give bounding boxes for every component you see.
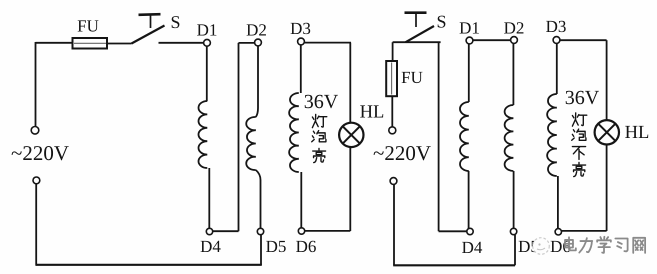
wire: fuse to switch pivot: [107, 43, 132, 45]
label S (right): [438, 16, 446, 28]
wire: D3 down to winding W3 (right): [556, 43, 558, 94]
winding W2 (left, D2-D5): [246, 117, 256, 170]
terminal D5 (left): [257, 228, 263, 234]
wire: switch to terminal D1 (left): [159, 42, 204, 44]
terminal D2 (left): [255, 39, 262, 46]
label ~220V (right): [374, 146, 431, 160]
winding W1 (right, D1-D4): [460, 102, 469, 171]
wire: right source down to bottom return: [393, 184, 395, 265]
wire: lamp loop top rail (left): [304, 43, 351, 123]
label FU (left): [78, 20, 99, 31]
label D1 (left): [197, 24, 216, 35]
switch S (right): fixed contact T-bar: [405, 13, 427, 27]
terminal D4 (left): [206, 228, 212, 234]
winding W1 (left, D1-D4): [198, 101, 207, 168]
terminal D3 (left): [298, 38, 305, 45]
fuse FU (left): [73, 38, 108, 49]
wire: W3 down to D6 (right): [557, 176, 559, 229]
winding W2 (right, D2-D5): [505, 105, 514, 171]
terminal D6 (right): [555, 229, 561, 235]
watermark logo circle: [533, 238, 550, 255]
wire: D4 up to winding W1 (right): [468, 171, 470, 228]
lamp HL (right): [595, 120, 619, 144]
wire: D2 down to winding W2: [256, 46, 258, 117]
AC source terminals (left): [31, 127, 40, 184]
wire: D3 down to winding W3: [300, 45, 302, 93]
label D6 (right): [551, 241, 571, 252]
switch S (left): blade: [132, 26, 165, 44]
AC source terminals (right): [389, 127, 397, 185]
switch S (left): fixed contact: [139, 14, 161, 28]
wire: switch right leg down to D4 (right): [439, 42, 467, 231]
wire: W1 to terminal D4: [208, 168, 210, 229]
wire: W2 down to D5 (right): [513, 171, 515, 228]
wire: right bottom return to D5: [393, 235, 515, 265]
wire: W2 to terminal D5: [256, 170, 261, 228]
fuse FU (right, vertical): [386, 61, 397, 96]
lamp HL (left): [339, 123, 363, 147]
wire: D2 down to winding W2 (right): [512, 43, 514, 105]
wire: lamp to loop bottom rail to D6 (left): [305, 147, 351, 231]
label ~220V (left): [12, 146, 69, 160]
wire: W3 to terminal D6: [300, 172, 302, 228]
text: lamp lights (deng pao liang, left): [312, 114, 327, 162]
terminal D4 (right): [467, 228, 473, 234]
value label 36V (right): [566, 91, 599, 105]
label D3 (left): [291, 23, 311, 34]
label S (left): [172, 16, 180, 28]
label D2 (left): [247, 24, 266, 35]
terminal D5 (right): [510, 228, 516, 234]
wire: D1 down to winding W1: [206, 46, 208, 101]
label HL (right): [625, 126, 648, 138]
wire: switch left leg down to fuse (right): [392, 42, 394, 61]
wire: lamp loop top rail (right): [560, 40, 607, 120]
winding W3 secondary (right, D3-D6): [547, 94, 557, 176]
terminal D6 (left): [298, 228, 304, 234]
switch S (right): blade: [406, 26, 434, 42]
label HL (left): [360, 105, 383, 117]
terminal D1 (right): [466, 37, 473, 44]
wire: left source top lead and top rail to fuse: [36, 42, 73, 127]
wire: W1 up to D1 (right): [468, 44, 470, 102]
wire: D5 to bottom return: [260, 235, 262, 265]
label D4 (left): [201, 241, 221, 252]
label D5 (right): [519, 241, 539, 252]
wire: top link D1 to D2 (right): [473, 39, 511, 41]
label D3 (right): [546, 21, 566, 32]
label D1 (right): [460, 22, 479, 33]
terminal D3 (right): [553, 37, 560, 44]
wire: switch horizontal bar (right): [393, 41, 441, 43]
wire: left bottom return to source: [36, 184, 262, 266]
terminal D2 (right): [511, 37, 518, 44]
watermark text: dian li xue xi wang: [565, 237, 645, 253]
label D6 (left): [296, 241, 316, 252]
wire: lamp down and loop bottom rail to D6 (right): [561, 145, 606, 232]
label FU (right): [402, 72, 423, 83]
terminal D1 (left): [204, 39, 211, 46]
wire: series link D4 to D2: [213, 43, 255, 231]
label D2 (right): [504, 22, 523, 33]
wire: fuse to source terminal (right): [391, 96, 393, 127]
value label 36V (left): [305, 95, 338, 109]
text: lamp does not light (right): [572, 113, 587, 177]
label D5 (left): [266, 241, 286, 252]
label D4 (right): [462, 242, 482, 253]
winding W3 secondary (left, D3-D6): [289, 93, 299, 172]
